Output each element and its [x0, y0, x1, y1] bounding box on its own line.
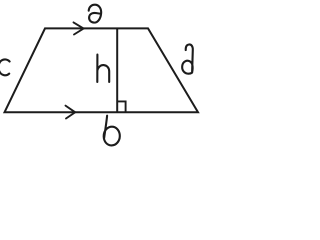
arrow on top side a: [74, 22, 84, 34]
label h: [97, 55, 109, 82]
label c: [0, 59, 10, 75]
label b: [104, 116, 120, 146]
right-angle marker: [117, 101, 125, 112]
height line h: [116, 28, 118, 112]
arrow on bottom side b: [66, 106, 76, 119]
label a: [89, 5, 101, 23]
trapezoid outline: [5, 28, 199, 112]
label d: [182, 44, 193, 73]
